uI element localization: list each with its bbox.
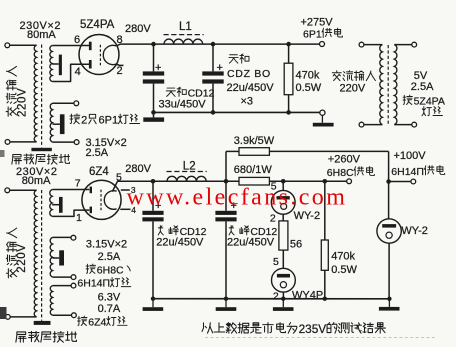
caption test note [202,322,385,336]
transformer T3 primary winding [380,45,383,125]
ground symbol 1 [143,299,164,311]
svg-text:CD12: CD12 [188,87,215,99]
pin 1 label [76,212,82,224]
node dot [286,42,291,47]
resistor R2 3.9k riser [225,151,227,181]
svg-text:4: 4 [75,66,81,78]
svg-text:0.5W: 0.5W [296,82,322,94]
wire [10,141,37,143]
svg-text:470k: 470k [331,250,355,262]
capacitor C2 wire [212,44,214,71]
wire [10,316,36,318]
node dot [151,42,156,47]
WY-2 no.2 cathode circle [386,232,392,238]
V2 internal dashed line [100,190,102,212]
wire pin8 to B+ rail [116,44,153,46]
svg-text:2: 2 [270,212,276,224]
svg-text:×3: ×3 [241,95,254,107]
svg-text:2.5A: 2.5A [98,251,121,263]
node dot [281,179,286,184]
regulator tube WY-2 no.1 envelope [271,190,295,214]
svg-text:680/1W: 680/1W [234,164,273,176]
label shield grounded T1 [12,154,70,164]
label 6H14P supply [391,166,444,178]
label WY-2 no.1 [294,210,321,222]
transformer T2 3.15V winding [50,237,52,277]
choke L2 core dashed [167,171,207,173]
pin 7 label [75,177,81,189]
terminal +260V [347,179,352,184]
transformer T1 primary bottom terminal [5,140,10,145]
pin 2 label [270,212,276,224]
scan artifact bottom line [205,337,436,339]
node dot [211,110,216,115]
label C1 name [166,87,214,99]
V1 plate pin6 [89,42,92,51]
capacitor C3 wire [152,181,154,211]
label 6H14P filament [77,278,130,290]
svg-text:235V: 235V [299,322,327,336]
T1 filament shield bar [60,114,65,134]
svg-text:WY-2: WY-2 [401,225,428,237]
watermark www.elecfans.com [127,185,348,211]
label to 5Z4PA [403,95,445,107]
svg-text:56: 56 [290,238,302,250]
label 3.15Vx2 (T2) [86,239,127,251]
wire [324,270,326,298]
wire secondary bottom to plate pin4 [52,64,89,81]
capacitor C4 polarity + [231,200,237,212]
V2 plate pin7 [90,187,92,194]
regulator tube WY4P envelope [272,268,296,292]
scan artifact left 2 [0,307,7,319]
svg-text:6Z4: 6Z4 [89,166,109,178]
resistor R5 470k wire [324,181,326,240]
svg-text:22u/450V: 22u/450V [156,237,204,249]
wire [10,189,37,191]
WY-2 no.1 cathode circle [281,203,287,209]
svg-text:6: 6 [74,34,80,46]
transformer T3 core [387,45,389,124]
label C2 value [227,82,275,94]
capacitor C1 polarity + [155,62,161,74]
svg-text:470k: 470k [296,70,320,82]
label C2 name2 [227,68,271,80]
transformer T2 core [41,190,43,321]
wire [394,124,412,126]
svg-text:6.3V: 6.3V [98,291,121,303]
node dot [323,179,328,184]
label +275V [301,17,334,29]
transformer T3 secondary top terminal [412,42,417,47]
svg-text:220V: 220V [340,83,366,95]
wire [282,214,284,221]
label C2 qty [241,95,254,107]
resistor R1 470k [284,63,293,94]
label filament [422,107,442,116]
T2 3.15V shield bar [59,250,64,265]
svg-text:5Z4PA: 5Z4PA [80,19,115,31]
capacitor C1 33u/450V [143,71,164,83]
svg-text:6P1: 6P1 [99,115,119,127]
label T2 220V (rotated) [16,243,28,272]
ground symbol right [313,115,334,126]
resistor R3 680/1W [239,177,269,185]
pin 8 label [117,34,123,46]
label T3 220V [340,83,366,95]
transformer T1 filament winding [50,103,52,142]
ground terminal [320,110,325,115]
svg-text:2: 2 [273,291,279,303]
svg-text:22u/450V: 22u/450V [227,82,275,94]
WY4P pin5 label [273,256,279,268]
wire [53,314,72,316]
node dot [151,297,155,301]
wire [288,95,290,113]
svg-text:280V: 280V [125,163,151,175]
label C4 name [229,226,277,238]
svg-text:80mA: 80mA [22,175,51,187]
svg-text:2.5A: 2.5A [411,81,434,93]
T2 3.15V bottom terminal [71,275,76,280]
label L2 [183,161,196,173]
WY-2 no.1 anode bar [277,196,290,199]
label 5V [414,70,428,82]
node dot [387,297,391,301]
svg-text:6H8C: 6H8C [327,167,354,179]
resistor R5 470k [321,240,328,270]
label 3.9k/5W [234,135,275,147]
wire [53,102,74,104]
label 56 [290,238,302,250]
label 2.5A (T2) [98,251,121,263]
node dot [281,297,285,301]
wire [53,285,72,287]
svg-text:6H14П: 6H14П [77,278,110,290]
pin4 stub [120,208,130,210]
label 6P1 supply [303,28,342,40]
resistor R2 3.9k/5W [239,148,269,156]
svg-text:2.5A: 2.5A [86,147,109,159]
pin 4 label [131,205,136,215]
pin 2 label [117,65,123,77]
label C3 name [158,226,206,238]
svg-text:L2: L2 [183,161,196,173]
top section ground rail [154,111,320,113]
wire [282,250,284,268]
+260V rail left [153,180,239,182]
pin3 stub [121,189,130,191]
label L1 [179,21,192,33]
capacitor C3 22u/450V [142,211,163,222]
label shield grounded T2 [16,331,77,342]
transformer T3 primary top terminal [359,42,364,47]
choke L1 core dashed [164,34,204,36]
label WY4P [292,289,323,301]
T2 3.15V top terminal [71,235,76,240]
svg-text:CDZ BO: CDZ BO [227,68,271,80]
label C1 value [159,99,207,111]
label 3.15Vx2 [86,137,127,149]
label 0.7A [98,303,121,315]
capacitor C1 wire [153,44,155,71]
transformer T2 primary winding [34,190,36,317]
T2 6.3V bottom terminal [72,313,77,318]
wire [364,44,383,46]
svg-text:6P1: 6P1 [303,28,322,40]
svg-text:6H14П: 6H14П [391,166,424,178]
B+ rail 280V [154,43,320,45]
label R5 value [331,250,355,262]
bottom ground rail [153,298,390,300]
pin 3 label [131,185,136,195]
svg-text:2: 2 [117,65,123,77]
svg-text:+100V: +100V [394,150,427,162]
svg-text:33u/450V: 33u/450V [159,99,207,111]
svg-text:5: 5 [116,171,122,183]
transformer T3 secondary bottom terminal [412,122,417,127]
wire secondary to plate pin7 [52,189,89,191]
label 6H8C supply [327,167,375,179]
node dot [386,179,391,184]
node dot [224,297,228,301]
node dot [151,110,156,115]
T2 HV center tap lead [52,204,59,206]
wire [394,44,412,46]
svg-text:80mA: 80mA [27,29,56,41]
capacitor C2 22u/450V x3 [202,71,223,83]
label 2.5A [411,81,434,93]
WY4P cathode circle [280,282,286,288]
svg-text:+260V: +260V [328,153,361,165]
node dot [286,110,291,115]
svg-text:6Z4: 6Z4 [88,316,106,328]
svg-text:5V: 5V [414,70,428,82]
wire [226,150,239,152]
V1 heater arc [103,45,116,64]
transformer T3 primary bottom terminal [359,122,364,127]
regulator tube WY-2 no.1 pin5 label [271,180,277,192]
wire to +100V terminal [389,181,411,183]
label to 6P1 filaments [70,114,140,127]
transformer T2 shield chassis bar [34,321,51,325]
label 230V x2 (T2) [16,166,58,178]
svg-text:7: 7 [75,177,81,189]
svg-text:220V: 220V [16,243,28,272]
capacitor C3 polarity + [155,200,161,212]
scan artifact left 1 [0,150,5,157]
T2 HV center tap bar [59,197,63,213]
transformer T3 secondary winding [394,45,397,125]
svg-text:22u/450V: 22u/450V [227,237,275,249]
wire pin5 to rail [112,181,153,191]
label C3 value [156,237,204,249]
terminal +275V [320,42,325,47]
V1 internal dashed line [99,45,101,66]
regulator tube WY-2 no.2 envelope [377,219,401,243]
wire [53,236,71,238]
V1 plate pin4 [89,60,92,69]
svg-text:1: 1 [76,212,82,224]
svg-text:0.7A: 0.7A [98,303,121,315]
transformer T1 core [41,45,43,148]
wire [53,276,72,278]
wire 3.9k output [269,150,388,152]
label 6.3V [98,291,121,303]
terminal +100V [411,179,416,184]
transformer T2 HV winding [50,190,52,217]
V2 heater arc [104,191,116,210]
node dot [211,42,216,47]
svg-text:220V: 220V [17,88,29,117]
svg-text:2: 2 [81,115,87,127]
svg-text:5Z4PA: 5Z4PA [414,95,445,107]
svg-text:3.15V×2: 3.15V×2 [86,239,127,251]
pin 6 label [74,34,80,46]
svg-text:+: + [155,62,161,74]
+260V rail right [269,180,346,182]
pin2 stub [116,64,123,65]
wire [153,84,155,113]
label R1 power [296,82,322,94]
pin 4 label [75,66,81,78]
resistor R4 56 [279,221,288,250]
T1 filament top terminal [74,101,79,106]
transformer T2 primary top terminal [5,188,10,193]
capacitor C4 22u/450V [215,211,236,222]
wire [10,44,37,46]
choke L1 [164,39,203,44]
T1 filament shield lead [53,123,60,125]
T1 HV center tap lead [52,63,59,65]
label 220V (rotated) [17,88,29,117]
svg-text:280V: 280V [125,23,151,35]
pin 5 label [116,171,122,183]
capacitor C2 polarity + [217,62,223,74]
label 5Z4PA [80,19,115,31]
svg-text:+275V: +275V [301,17,334,29]
label 230V x2 [20,20,62,32]
label AC input (rotated) [6,66,16,116]
ground symbol 4 [379,299,400,311]
T1 HV center tap bar [59,55,62,76]
transformer T1 shield chassis bar [31,148,51,151]
label C4 value [227,237,275,249]
label to 6Z4 filament [78,316,127,328]
label 2.5A [86,147,109,159]
transformer T1 HV secondary winding [50,46,52,82]
node dot [224,179,229,184]
resistor R1 470k wire [288,44,290,63]
rectifier tube V2 6Z4 envelope [82,180,121,219]
T2 6.3V top terminal [71,283,76,288]
label 280V [125,23,151,35]
wire [388,243,390,299]
rectifier tube V1 5Z4PA envelope [79,35,119,75]
WY4P anode bar [277,274,290,278]
label to 6H8C [86,264,130,276]
WY-2 no.2 anode bar [382,224,396,228]
node dot [323,297,327,301]
label R1 value [296,70,320,82]
wire down to WY-2 [388,151,390,219]
wire [225,221,227,298]
ground symbol 3 [273,299,294,311]
transformer T1 primary winding [34,45,36,142]
wire [212,84,214,113]
label +100V [394,150,427,162]
wire [364,124,383,126]
label 80mA (T2) [22,175,51,187]
svg-text:0.5W: 0.5W [331,264,357,276]
label 80mA [27,29,56,41]
V2 plate pin1 [90,207,92,214]
capacitor C4 wire [225,181,227,211]
wire [53,141,75,143]
WY4P pin2 label [273,291,279,303]
wire secondary top to plate [52,45,89,47]
svg-text:5: 5 [273,256,279,268]
wire secondary bottom to plate pin1 [52,210,89,216]
label 6Z4 [89,166,109,178]
ground symbol 2 [216,299,237,311]
wire [282,181,284,190]
T2 3.15V shield lead [53,257,60,259]
label C2 name1 [229,54,249,63]
label WY-2 no.2 [401,225,428,237]
svg-text:+: + [217,62,223,74]
svg-text:3.9k/5W: 3.9k/5W [234,135,275,147]
choke L2 [167,176,206,181]
label +260V [328,153,361,165]
svg-text:L1: L1 [179,21,192,33]
label T2 AC input (rotated) [6,228,16,278]
T1 filament bottom terminal [74,140,79,145]
transformer T2 primary bottom terminal [5,315,10,320]
svg-text:WY-2: WY-2 [294,210,321,222]
wire [282,292,284,299]
label R5 power [331,264,357,276]
label 680/1W [234,164,273,176]
node dot [151,179,156,184]
svg-text:6H8C: 6H8C [97,264,124,276]
label 280V (lower) [125,163,151,175]
label T3 AC input [332,71,375,81]
svg-text:8: 8 [117,34,123,46]
transformer T1 primary top terminal [5,43,10,48]
transformer T2 6.3V winding [50,286,52,316]
svg-text:www.elecfans.com: www.elecfans.com [127,185,348,211]
ground bar left [143,112,164,121]
wire [152,221,154,298]
